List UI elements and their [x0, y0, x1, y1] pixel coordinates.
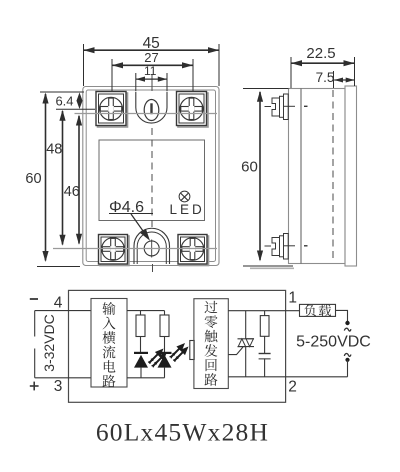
snubber capacitor C1	[259, 354, 271, 377]
relay body inner lip	[86, 90, 215, 262]
label area rectangle	[99, 140, 205, 221]
svg-text:3: 3	[54, 378, 63, 395]
snubber resistor lead	[264, 311, 266, 316]
top rail from input box to resistors	[127, 310, 165, 312]
side dashed mounting plane line	[332, 90, 334, 262]
side body	[289, 89, 346, 264]
svg-text:27: 27	[144, 50, 158, 65]
DC source bracket lower segment	[34, 349, 36, 378]
tilde bottom	[344, 354, 351, 357]
tilde top	[344, 328, 351, 331]
dimension 60 (front)	[25, 93, 48, 263]
side extension line bottom	[243, 265, 293, 267]
terminal 4 wire	[35, 310, 91, 312]
dimension 60 (side)	[241, 91, 263, 262]
svg-text:5-250VDC: 5-250VDC	[296, 334, 371, 351]
gray centerline through top screws	[75, 113, 218, 115]
LED indicator symbol on face	[170, 191, 205, 217]
side extension line top	[243, 88, 289, 90]
svg-text:6.4: 6.4	[55, 94, 73, 109]
svg-text:3-32VDC: 3-32VDC	[41, 314, 57, 372]
load box label	[304, 304, 331, 317]
svg-text:48: 48	[46, 142, 62, 158]
schematic outer box (relay boundary)	[69, 290, 286, 402]
svg-text:1: 1	[288, 290, 297, 307]
centerline stub below bottom screw	[152, 264, 154, 272]
bottom rail from input box to LEDs	[127, 377, 165, 379]
svg-text:46: 46	[64, 184, 80, 200]
svg-text:7.5: 7.5	[316, 70, 335, 85]
dimension 11	[136, 64, 167, 91]
triac top lead	[245, 311, 247, 339]
terminal screw bottom-left	[99, 235, 130, 266]
bottom rail right (terminal 2)	[228, 376, 347, 378]
bottom middle screw terminal (arch with mounting hole)	[134, 228, 170, 264]
dimension 6.4 (double arrow)	[55, 93, 82, 110]
LED D2 (opto emitter)	[158, 337, 189, 378]
dimension 48	[46, 110, 65, 246]
zero-cross trigger circuit box label	[204, 301, 217, 386]
side screw bottom	[265, 234, 296, 260]
hole label Phi 4.6 with leader arrow	[109, 199, 153, 241]
relay body outer outline	[83, 87, 219, 266]
svg-text:2: 2	[288, 379, 297, 396]
dimension 7.5	[316, 70, 355, 88]
side tick top	[304, 105, 308, 107]
LED D1 (indicator)	[134, 337, 167, 378]
wire R3 to capacitor	[264, 336, 266, 353]
side tick bottom	[304, 245, 308, 247]
resistor R1	[136, 315, 145, 337]
svg-text:60: 60	[25, 171, 41, 187]
dimension 27	[112, 50, 193, 91]
plus sign	[30, 382, 39, 391]
photo receiver bar	[190, 341, 194, 360]
svg-text:4: 4	[54, 294, 63, 311]
side screw top	[265, 94, 296, 120]
dimension 46	[64, 115, 82, 245]
svg-text:60: 60	[241, 159, 258, 176]
left extension line at body bottom	[37, 266, 80, 268]
AC terminal dot top	[345, 321, 349, 325]
zero-cross trigger box	[194, 299, 228, 389]
DC source bracket upper segment	[34, 311, 36, 337]
terminal screw bottom-right	[178, 235, 209, 266]
svg-text:11: 11	[144, 64, 157, 78]
svg-text:60Lx45Wx28H: 60Lx45Wx28H	[96, 418, 269, 447]
wire AC terminal to bottom rail	[347, 360, 349, 377]
AC terminal dot bottom	[345, 358, 349, 362]
vertical centerline (dashed)	[151, 128, 153, 227]
left extension line top (body top)	[40, 91, 84, 93]
svg-text:22.5: 22.5	[306, 45, 335, 62]
wire load to AC terminal	[336, 310, 348, 321]
gray centerline through bottom screws	[53, 248, 217, 250]
triac gate wire	[228, 347, 243, 355]
minus sign	[30, 298, 38, 300]
triac symbol	[238, 339, 255, 377]
top middle screw terminal (arch with slotted screw)	[136, 92, 167, 123]
top rail right (to terminal 1)	[228, 310, 299, 312]
load box	[300, 304, 336, 316]
terminal 3 wire	[35, 377, 91, 379]
resistor R1 lead	[140, 311, 142, 315]
dimension 22.5	[291, 45, 355, 88]
snubber resistor R3	[260, 316, 269, 337]
left extension line at top screw center	[56, 108, 95, 110]
side body inner lip	[300, 89, 302, 264]
input constant-current circuit box label	[102, 302, 115, 387]
side gray shadow bottom	[250, 267, 294, 269]
resistor R2 lead	[164, 311, 166, 315]
svg-text:LED: LED	[170, 202, 205, 217]
terminal screw top-right	[177, 92, 209, 128]
dimension 45	[84, 35, 220, 86]
terminal screw top-left	[96, 92, 128, 128]
side base plate	[345, 86, 357, 266]
resistor R2	[160, 315, 169, 337]
centerline stub above top screw	[151, 74, 153, 91]
input circuit box	[91, 299, 127, 388]
